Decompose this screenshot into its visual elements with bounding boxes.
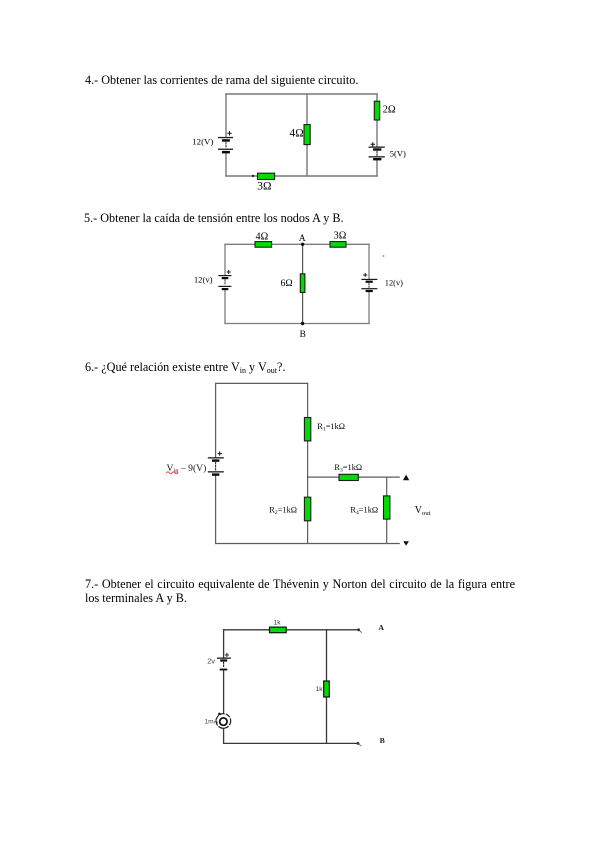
terminal B dot (357, 742, 360, 745)
heading problem 6 (85, 361, 285, 376)
wire left upper (circuit 7) (223, 630, 225, 658)
resistor 4Ω (304, 125, 310, 145)
wire R4 branch (circuit 6) (386, 477, 388, 543)
svg-text:Vout: Vout (415, 505, 431, 517)
resistor 1k (right branch) (324, 681, 330, 697)
wire middle horizontal (circuit 6) (308, 476, 400, 478)
battery 12(V) (218, 132, 233, 154)
wire bottom (circuit 7) (224, 742, 358, 744)
wire bottom (circuit 4) (226, 175, 377, 177)
current source 1mA (216, 713, 231, 729)
terminal A dot (357, 628, 360, 631)
svg-text:2v: 2v (207, 656, 215, 665)
wire top (circuit 7) (224, 629, 359, 631)
resistor 1k (top) (270, 627, 287, 633)
wire left lower (circuit 7) (223, 728, 225, 743)
svg-text:12(v): 12(v) (385, 279, 403, 288)
red squiggle under Vin (167, 472, 178, 474)
stray mark (382, 255, 384, 257)
svg-text:3Ω: 3Ω (257, 181, 271, 193)
wire left upper (circuit 4) (225, 94, 227, 137)
svg-text:12(V): 12(V) (192, 137, 213, 147)
svg-text:R1=1kΩ: R1=1kΩ (317, 422, 345, 433)
wire R1-R2 branch (circuit 6) (307, 383, 309, 543)
battery Vin 9(V) (208, 452, 224, 476)
svg-text:B: B (300, 330, 306, 340)
wire right lower (circuit 5) (368, 292, 370, 324)
wire right branch (circuit 7) (326, 630, 328, 744)
wire bottom (circuit 5) (225, 323, 369, 325)
wire middle branch (circuit 4) (306, 94, 308, 176)
svg-text:4Ω: 4Ω (290, 128, 304, 140)
wire left lower (circuit 6) (215, 476, 217, 544)
wire right upper (circuit 5) (368, 244, 370, 278)
resistor 2Ω (374, 101, 379, 120)
resistor R3 (339, 474, 358, 480)
resistor 3Ω (top right) (330, 242, 346, 248)
wire right lower (circuit 4) (376, 161, 378, 177)
svg-text:12(v): 12(v) (194, 275, 213, 285)
resistor 3Ω (258, 173, 275, 179)
resistor 6Ω (middle) (300, 274, 305, 293)
wire left lower (circuit 5) (224, 290, 226, 324)
battery 12(v) right (361, 273, 377, 292)
wire left upper (circuit 5) (224, 244, 226, 275)
battery 12(v) left (218, 270, 231, 290)
battery 2V (217, 653, 231, 670)
resistor 4Ω (top left) (255, 242, 272, 248)
wire left upper (circuit 6) (215, 383, 217, 457)
arrow down (Vout -) (403, 541, 409, 545)
svg-text:5(V): 5(V) (390, 148, 406, 158)
wire top (circuit 5) (225, 243, 369, 245)
wire left lower (circuit 4) (225, 153, 227, 177)
resistor R4 (384, 496, 390, 519)
svg-text:A: A (299, 234, 306, 244)
wire left middle (circuit 7) (223, 670, 225, 713)
resistor R1 (304, 418, 310, 441)
svg-text:2Ω: 2Ω (383, 104, 396, 115)
node A (301, 243, 304, 246)
svg-text:A: A (378, 623, 384, 632)
wire right upper (circuit 4) (376, 94, 378, 146)
arrow up (Vout +) (403, 475, 409, 481)
heading problem 5 (84, 212, 344, 226)
wire top (circuit 6) (216, 382, 308, 384)
resistor R2 (304, 497, 310, 521)
svg-text:3Ω: 3Ω (334, 231, 347, 242)
junction dot (circuit 4 bottom) (252, 175, 254, 177)
svg-text:1k: 1k (274, 620, 282, 627)
heading problem 4 (85, 74, 358, 88)
wire top (circuit 4) (226, 93, 377, 95)
svg-text:R3=1kΩ: R3=1kΩ (334, 463, 362, 474)
svg-text:R2=1kΩ: R2=1kΩ (269, 506, 297, 517)
heading problem 7 (justified, two lines) (85, 578, 515, 605)
svg-text:6Ω: 6Ω (281, 278, 293, 289)
svg-text:1k: 1k (316, 686, 324, 693)
wire middle branch (circuit 5) (302, 244, 304, 323)
svg-text:1mA: 1mA (204, 719, 218, 726)
svg-text:R4=1kΩ: R4=1kΩ (350, 506, 378, 517)
node B (301, 322, 304, 325)
svg-text:4Ω: 4Ω (256, 231, 269, 242)
svg-text:B: B (380, 736, 385, 745)
battery 5(V) (369, 143, 385, 161)
wire bottom (circuit 6) (216, 543, 400, 545)
